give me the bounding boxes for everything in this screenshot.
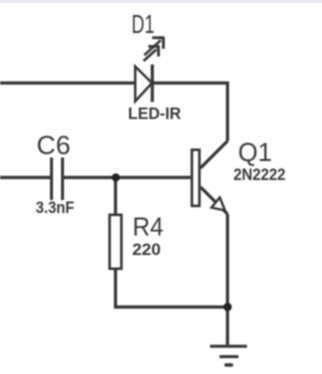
svg-text:D1: D1 [132,9,155,39]
svg-text:R4: R4 [133,211,164,241]
svg-text:3.3nF: 3.3nF [36,198,75,217]
svg-text:C6: C6 [37,130,71,160]
svg-text:2N2222: 2N2222 [234,165,286,184]
svg-text:220: 220 [132,240,161,259]
svg-text:Q1: Q1 [238,137,272,167]
svg-text:LED-IR: LED-IR [128,104,181,123]
